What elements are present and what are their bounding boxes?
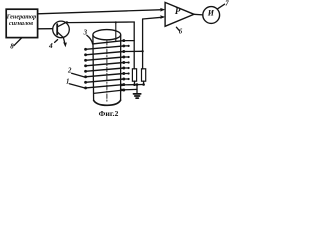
transistor emitter	[57, 32, 65, 43]
tap stub dot S6	[128, 67, 130, 69]
left winding lead dot L3	[84, 59, 87, 62]
svg-text:1: 1	[66, 78, 69, 85]
winding turn w6	[86, 68, 124, 71]
svg-text:6: 6	[179, 29, 183, 36]
bus B vertical (to R2)	[142, 19, 144, 69]
winding turn w4	[86, 57, 124, 60]
winding turn w9	[86, 85, 124, 88]
cylinder bottom arc	[94, 100, 121, 105]
arrowhead into amp top input	[160, 8, 165, 12]
arrowhead into amp bottom input	[160, 15, 165, 19]
winding turn w8	[86, 79, 124, 82]
amplifier triangle (6)	[165, 2, 194, 26]
wire: tap stub row5	[124, 62, 129, 64]
emitter arrowhead	[63, 42, 67, 47]
label 2 leader	[72, 73, 85, 77]
winding turn w2	[86, 46, 124, 49]
right winding tap dot R5	[122, 61, 125, 64]
right winding tap dot R10	[122, 89, 125, 92]
wire: node line N1 (resistor bottoms to coil)	[121, 84, 144, 86]
wire: coil feed branch	[115, 22, 117, 41]
right winding tap dot R9	[122, 83, 125, 86]
tap stub dot S5	[128, 61, 130, 63]
winding turn w5	[86, 63, 124, 66]
resistor R2	[142, 69, 146, 81]
wire: node line N2 (coil to ground)	[121, 88, 137, 91]
R1 bottom lead	[134, 81, 136, 85]
R2 bottom lead	[143, 81, 145, 84]
junction dot bus B / tap stub	[141, 50, 143, 52]
left winding lead dot L7	[84, 81, 87, 84]
cylinder right side	[120, 35, 122, 100]
left winding lead dot L5	[84, 70, 87, 73]
right winding tap dot R4	[122, 56, 125, 59]
label 3 leader curve to top winding	[87, 35, 93, 44]
ground	[136, 85, 138, 94]
tap stub dot S4	[128, 56, 130, 58]
wire: tap stub row1 to bus A	[124, 40, 134, 42]
left winding lead dot L1	[84, 48, 87, 51]
left winding lead dot L6	[84, 75, 87, 78]
svg-text:Фиг.2: Фиг.2	[99, 109, 119, 118]
winding turn w10 (bottom, to ground tap)	[94, 90, 124, 93]
svg-text:сигналов: сигналов	[9, 20, 33, 27]
right winding tap dot R8	[122, 78, 125, 81]
label 1 leader	[69, 84, 84, 88]
indicator circle (7)	[203, 7, 220, 24]
svg-text:Р: Р	[175, 6, 181, 16]
left winding lead dot L8	[84, 86, 87, 89]
junction dot N1/coil	[121, 84, 124, 87]
wire: tap stub row6	[124, 67, 129, 69]
tap stub dot S8	[128, 78, 130, 80]
cylinder dash-dot axis	[106, 41, 108, 103]
winding turn w7	[86, 74, 124, 77]
generator box U1	[6, 9, 37, 37]
junction dot N2/coil	[121, 89, 124, 92]
wire: tap stub row8	[124, 78, 129, 80]
winding turn w1	[93, 41, 124, 44]
svg-text:8: 8	[10, 43, 14, 50]
tap stub dot S2	[128, 45, 130, 47]
left winding lead dot L4	[84, 64, 87, 67]
resistor R1	[132, 69, 136, 81]
right winding tap dot R3	[122, 50, 125, 53]
svg-text:И: И	[207, 9, 215, 18]
wire: amp output to indicator	[194, 13, 203, 16]
label 6 leader	[176, 27, 179, 30]
junction dot N1/R1 lead	[133, 83, 136, 86]
wire: tap stub row4	[124, 56, 129, 58]
tap stub dot S7	[128, 72, 130, 74]
coil core cylinder top ellipse	[93, 30, 121, 40]
left winding lead dot L2	[84, 53, 87, 56]
wire: tap stub row3 to bus B	[124, 50, 143, 52]
wire: generator to transistor base	[38, 28, 53, 30]
cylinder left side	[92, 35, 95, 100]
label 8 (generator) leader	[14, 38, 22, 46]
transistor Q (4)	[53, 21, 70, 38]
label 7 leader	[217, 4, 224, 9]
svg-text:7: 7	[225, 1, 229, 8]
junction dot N1/R2 lead	[142, 83, 145, 86]
right winding tap dot R6	[122, 67, 125, 70]
junction dot N1/ground stem	[136, 83, 139, 86]
winding turn w3	[86, 52, 124, 55]
wire: tap stub row2	[124, 45, 129, 47]
transistor base bar	[56, 24, 58, 34]
right winding tap dot R7	[122, 72, 125, 75]
transistor collector	[57, 22, 68, 27]
bus A vertical (line2 corner down to R1)	[133, 22, 135, 69]
wire: bus B corner to amplifier bottom input	[143, 17, 163, 19]
label 4 leader	[55, 40, 58, 43]
wire: collector to coil top (line 2)	[68, 21, 135, 24]
wire: tap stub row7	[124, 73, 129, 75]
junction dot line2/coil-feed	[115, 21, 117, 23]
right winding tap dot R2	[122, 44, 125, 47]
wire: generator to amplifier top input (line 1)	[38, 10, 163, 14]
right winding tap dot R1	[122, 39, 125, 42]
svg-text:4: 4	[48, 41, 53, 50]
